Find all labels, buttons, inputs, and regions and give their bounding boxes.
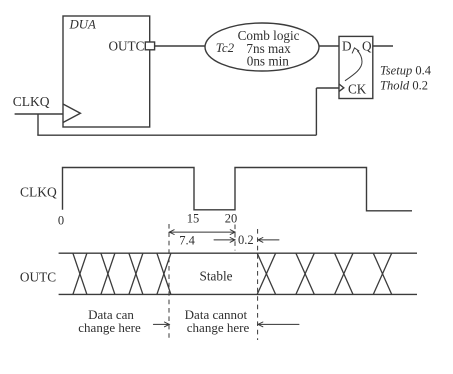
wire OUTC to comb logic bbox=[155, 45, 206, 47]
svg-text:15: 15 bbox=[187, 212, 200, 226]
dimension arrow 7.4 span bbox=[169, 231, 235, 233]
svg-text:change here: change here bbox=[78, 320, 141, 335]
left X group bbox=[73, 253, 87, 294]
svg-text:OUTC: OUTC bbox=[20, 270, 56, 285]
svg-text:Thold 0.2: Thold 0.2 bbox=[380, 78, 428, 92]
dashed guide line at 12.6 bbox=[168, 224, 170, 338]
wire comb logic to D bbox=[319, 45, 339, 47]
wire CLKQ bottom run bbox=[37, 134, 316, 136]
svg-text:CLKQ: CLKQ bbox=[20, 184, 57, 199]
OUTC top rail bbox=[59, 252, 417, 254]
curved arrow CK to D bbox=[345, 51, 362, 81]
svg-text:Q: Q bbox=[362, 38, 372, 53]
svg-text:Tc2: Tc2 bbox=[216, 40, 235, 55]
wire into CK pin bbox=[316, 87, 339, 89]
dashed guide line at 20 bbox=[234, 225, 236, 251]
wire CLKQ up to CK bbox=[315, 88, 317, 135]
flip-flop U1 box bbox=[339, 36, 373, 98]
pin OUTC square bbox=[145, 42, 154, 50]
svg-text:D: D bbox=[342, 38, 352, 53]
comb logic ellipse bbox=[205, 23, 319, 71]
svg-text:DUA: DUA bbox=[69, 17, 96, 31]
svg-text:0.2: 0.2 bbox=[238, 233, 254, 247]
arrow to right dashed line bbox=[258, 323, 299, 325]
clock input triangle of DUA bbox=[63, 104, 80, 123]
wire Q output bbox=[373, 45, 393, 47]
wire CLKQ branch down bbox=[37, 114, 39, 135]
clock triangle of CK bbox=[339, 84, 344, 91]
dashed guide line at 20.2 bbox=[257, 229, 259, 340]
svg-text:OUTC: OUTC bbox=[108, 38, 144, 53]
arrow to left dashed line bbox=[153, 323, 169, 325]
svg-text:7.4: 7.4 bbox=[179, 234, 195, 248]
svg-text:CK: CK bbox=[348, 81, 367, 96]
svg-text:Stable: Stable bbox=[200, 269, 233, 284]
svg-text:0ns min: 0ns min bbox=[247, 54, 290, 69]
arrow pointing left to 20.2 bbox=[258, 239, 279, 241]
CLKQ waveform trace bbox=[63, 168, 413, 211]
block DUA bbox=[63, 16, 150, 127]
svg-text:20: 20 bbox=[225, 212, 238, 226]
svg-text:Tsetup 0.4: Tsetup 0.4 bbox=[380, 63, 432, 77]
right X group bbox=[257, 253, 275, 294]
svg-text:CLKQ: CLKQ bbox=[13, 94, 50, 109]
svg-text:change here: change here bbox=[187, 320, 250, 335]
svg-text:0: 0 bbox=[58, 214, 64, 228]
OUTC bottom rail bbox=[59, 293, 417, 295]
wire CLKQ to DUA bbox=[15, 113, 63, 115]
arrow pointing right to 20 bbox=[214, 239, 235, 241]
